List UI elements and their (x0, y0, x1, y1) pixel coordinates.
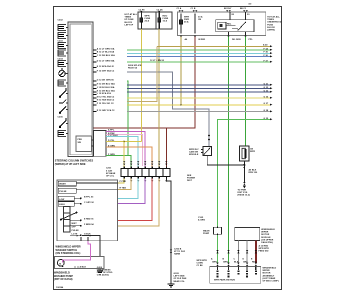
svg-text:(LEFT REAR: (LEFT REAR (263, 277, 276, 280)
svg-text:M 12 YEL 98A C2: M 12 YEL 98A C2 (97, 95, 115, 98)
svg-text:I/P HARNESS: I/P HARNESS (97, 268, 111, 271)
wire W-green down left side to module lower pin (97, 79, 131, 166)
bottom connector C1 pin triangles (216, 263, 257, 267)
svg-text:PULSE: PULSE (59, 191, 67, 193)
connector symbol on ground wire (170, 250, 172, 253)
svg-text:WPR: WPR (250, 151, 255, 153)
svg-text:A GRN: A GRN (198, 219, 205, 222)
wiper motor module box (235, 227, 260, 240)
svg-text:H 12 DK BLU 94A: H 12 DK BLU 94A (97, 82, 115, 85)
svg-text:WPR PARK SW RUN: WPR PARK SW RUN (214, 279, 235, 282)
fuse element E1 (180, 14, 190, 34)
svg-text:PULSE: PULSE (72, 230, 80, 232)
module inner link wires (92, 139, 94, 141)
wire: green relay 1 long vertical to bottom connector (228, 37, 230, 264)
strip pin connector marks below (123, 180, 167, 182)
svg-text:A9 BLK: A9 BLK (249, 168, 257, 171)
svg-text:PUMP: PUMP (203, 233, 210, 235)
svg-text:LOW: LOW (59, 199, 64, 201)
svg-text:J 12 DK BLU 95A: J 12 DK BLU 95A (97, 86, 115, 89)
wire W15 lt green from right label down to bottom connector (218, 118, 271, 263)
wire below pulse board with junction dots (243, 161, 245, 182)
switch bottom pins (80, 237, 82, 241)
svg-text:A BLK: A BLK (80, 266, 87, 269)
svg-text:PRK: PRK (78, 139, 83, 141)
wire B5 red strip pin5 to switch (82, 179, 152, 221)
svg-text:G 35: G 35 (264, 96, 269, 98)
svg-text:N 12 TAN 99A C2: N 12 TAN 99A C2 (97, 99, 115, 102)
wire M4 cyan to strip pin3 (106, 135, 138, 166)
svg-text:MIST: MIST (72, 223, 78, 225)
svg-text:C204: C204 (58, 57, 64, 60)
relay R2 (wiper control) box with diagonal (189, 147, 211, 157)
switch S1 box (57, 180, 118, 241)
ground G2 label (174, 273, 187, 283)
svg-text:(WIPER) AT I/P LEFT SIDE: (WIPER) AT I/P LEFT SIDE (55, 163, 86, 166)
svg-text:OFF: OFF (72, 227, 77, 229)
svg-text:B 12 LT BLU 93A: B 12 LT BLU 93A (97, 51, 115, 54)
svg-text:LEFT I/P: LEFT I/P (125, 24, 134, 26)
svg-text:P PNK: P PNK (120, 181, 127, 183)
text right of underhood box (267, 16, 282, 32)
svg-text:G 31: G 31 (264, 83, 269, 85)
wire end arrows at right edge (270, 45, 272, 120)
strip pin connector marks above (123, 161, 167, 165)
module right-edge pin stubs (93, 50, 96, 112)
fuse F1 box (138, 12, 156, 29)
wire gray2 below wiper module (246, 241, 248, 263)
stubs from left column to module (65, 28, 68, 134)
fuse F2 box (156, 12, 172, 29)
svg-text:RFB 150: RFB 150 (249, 172, 258, 174)
svg-text:FEED 592: FEED 592 (259, 251, 270, 253)
svg-text:G 33: G 33 (264, 90, 269, 92)
ground G200 label (97, 267, 113, 277)
wire B4 violet strip pin4 to switch (82, 179, 145, 204)
connector marks on top of underhood box (179, 10, 248, 12)
svg-text:GRN: GRN (223, 261, 228, 263)
fuse F2 connector label (157, 10, 164, 13)
module inner box B (76, 136, 92, 152)
svg-text:6 CAV: 6 CAV (106, 169, 113, 172)
wire B7 black strip pin7 to ground vertical (166, 179, 171, 284)
svg-text:F 12 GRY 96A C2: F 12 GRY 96A C2 (97, 69, 115, 72)
motor brush elements inside lower box (218, 267, 256, 271)
small pin labels above bottom connector (211, 258, 257, 264)
switch wire labels (84, 181, 127, 235)
connector triangles below underhood box (180, 36, 247, 38)
off page label (238, 190, 251, 197)
svg-text:HOT AT ALL: HOT AT ALL (125, 13, 138, 16)
wire W2 cyan (97, 51, 270, 54)
connector triangles on chain (243, 182, 245, 185)
wire W14 gray (97, 109, 270, 112)
off page arrow (243, 186, 246, 189)
node: fuse block header text (125, 13, 138, 26)
connector label (174, 249, 185, 256)
svg-text:M: M (59, 263, 61, 265)
svg-text:D 12 LT GRN 95A: D 12 LT GRN 95A (97, 59, 115, 62)
svg-text:B RED: B RED (199, 39, 206, 41)
border frame (54, 6, 282, 289)
svg-text:ASSEMBLY: ASSEMBLY (263, 274, 275, 277)
washer pump box (55, 257, 105, 269)
svg-text:G 32: G 32 (264, 87, 269, 89)
svg-text:PPL: PPL (249, 39, 254, 41)
left column connector C201 (58, 20, 67, 137)
svg-text:GRN: GRN (212, 261, 217, 263)
svg-text:L 12 NCA 97A: L 12 NCA 97A (97, 92, 112, 95)
svg-text:25 A: 25 A (145, 20, 150, 23)
wire gray1 below wiper module (237, 241, 239, 263)
svg-text:(PAGE 10-2): (PAGE 10-2) (238, 194, 251, 197)
svg-text:HOT AT ALL: HOT AT ALL (267, 16, 280, 19)
wire M2 magenta to strip pin4 (106, 129, 145, 167)
wiper motor assembly lower box (210, 267, 261, 284)
label right of lower box (263, 268, 279, 283)
module U1 inner border (70, 24, 91, 155)
svg-text:REL: REL (227, 24, 232, 26)
switch wafer column (64, 207, 71, 233)
switch contact box 4 (58, 202, 81, 207)
svg-text:WASH: WASH (203, 230, 210, 233)
wire: dark red from fuse E2 down then left to module (93, 37, 195, 129)
svg-text:G 38: G 38 (264, 110, 269, 112)
wire W11 pale yellow (97, 95, 270, 98)
svg-text:C1 A: C1 A (177, 7, 182, 10)
wire: dark red branch down to strip pin7 (165, 128, 167, 168)
strip connector C2 label (106, 168, 116, 178)
svg-text:K 12 DK BLU 96A: K 12 DK BLU 96A (97, 89, 115, 92)
wire W3 blue (97, 54, 270, 57)
switch mode text (72, 223, 80, 236)
svg-text:C202: C202 (58, 20, 64, 22)
row label only (no wire) (97, 92, 112, 95)
svg-text:HIGH: HIGH (59, 204, 65, 206)
svg-text:G 37: G 37 (264, 103, 269, 105)
wire W12 tan turns up to tan top row (97, 47, 157, 102)
svg-text:DK GRN: DK GRN (232, 39, 241, 41)
svg-text:C205: C205 (58, 117, 64, 119)
svg-text:HARN: HARN (174, 253, 181, 256)
wire W1 lt green (97, 47, 270, 50)
fuse F1 connector label (139, 10, 146, 13)
switch contact box 3 (58, 196, 81, 201)
svg-text:A 40: A 40 (263, 44, 268, 47)
magenta wire from switch pin J to washer pump (63, 241, 91, 263)
washer pump bold label (54, 272, 73, 282)
svg-text:(FRT OF DASH): (FRT OF DASH) (54, 278, 73, 281)
svg-text:R 12 GRY 97A C2: R 12 GRY 97A C2 (97, 109, 115, 112)
svg-text:NEAR COL: NEAR COL (174, 280, 186, 283)
svg-text:C 12 DK BLU 92A: C 12 DK BLU 92A (97, 54, 115, 57)
washer hose connector on green W15 (203, 227, 222, 236)
svg-text:OF FLR PAN: OF FLR PAN (174, 277, 187, 280)
wire W9 dk blue (97, 89, 270, 92)
svg-text:PACK 94: PACK 94 (128, 67, 138, 70)
svg-text:MODULE: MODULE (189, 154, 199, 156)
wire W13 yellow with junction to olive vertical (97, 103, 270, 106)
svg-text:WASH: WASH (59, 183, 66, 186)
svg-text:G 12 DK GRN 95: G 12 DK GRN 95 (97, 79, 115, 81)
wire: tan top row to right edge (157, 46, 270, 48)
wire W5 label only (97, 65, 142, 70)
fuse element E2 (194, 14, 203, 34)
svg-text:CB: CB (198, 19, 202, 21)
svg-text:DASH PNL): DASH PNL) (261, 241, 273, 244)
wire dark red thick below wiper module (255, 241, 257, 263)
wire W7 dk blue (97, 82, 270, 85)
left label of bottom connector (197, 260, 208, 267)
svg-text:E 12 NCA 594 J2: E 12 NCA 594 J2 (97, 65, 115, 68)
strip connector row of cells (121, 169, 170, 177)
svg-text:10 A: 10 A (163, 20, 168, 23)
svg-text:B PPL 93: B PPL 93 (84, 197, 94, 199)
underhood fuse block box (178, 12, 266, 36)
svg-text:F BRN 94: F BRN 94 (84, 223, 94, 226)
dark red wire label (259, 245, 270, 253)
strip pin stubs (124, 166, 166, 178)
wire from relay R2 bottom to pulse board chain (207, 156, 245, 166)
wire: yellow from fuse F1 down to yellow row (140, 29, 142, 142)
wire B3 cyan strip pin3 to switch (82, 179, 138, 199)
wire W4 lt green (97, 59, 270, 62)
switch lever (60, 212, 77, 221)
wire: green relay 2 vertical to pulse board (245, 37, 247, 147)
svg-text:C1 B6: C1 B6 (197, 265, 204, 267)
wiper relay box (216, 12, 254, 36)
switch bold label below (56, 246, 82, 256)
svg-text:C1 B: C1 B (191, 8, 196, 10)
svg-text:E RED 91: E RED 91 (84, 219, 94, 221)
wire B2 tan strip pin2 to switch (117, 179, 131, 190)
switch internal pin links (70, 220, 81, 235)
wire: olive vertical from fuse E1 (180, 37, 182, 105)
svg-text:(ON STEERING COL): (ON STEERING COL) (56, 252, 81, 255)
washer pump pins (62, 261, 79, 267)
wire M3 pink short (106, 133, 142, 166)
svg-text:OF ENG COMP): OF ENG COMP) (263, 281, 279, 283)
module U1 (left column module) outer box (68, 22, 93, 157)
wire W6 gray to relay R2 (97, 69, 210, 146)
floating note text (187, 175, 196, 182)
svg-text:AT BASE: AT BASE (106, 172, 116, 175)
washer pump motor circle (57, 259, 64, 266)
svg-text:SW: SW (78, 142, 81, 144)
svg-text:A 12 LT GRN 91A: A 12 LT GRN 91A (97, 47, 115, 50)
svg-text:25 A: 25 A (184, 21, 189, 24)
svg-text:COL (G200): COL (G200) (97, 275, 109, 277)
wire M5 yellow row joining fuse F1 vertical, to strip pin1 (106, 140, 141, 167)
svg-text:B2 RLY: B2 RLY (224, 8, 232, 10)
switch black wire to ground G200 (82, 235, 100, 271)
ground G200 symbol (97, 271, 103, 274)
wire M6 orange to strip pin5 (106, 145, 152, 166)
svg-text:P 12 YEL 591 C2: P 12 YEL 591 C2 (97, 103, 115, 105)
wire B6 tan strip pin6 to switch (82, 179, 159, 226)
switch contact box 2 (58, 188, 117, 193)
wire W8 dk blue (97, 86, 270, 89)
module inner box A (94, 131, 107, 157)
svg-text:30 A: 30 A (198, 16, 203, 19)
wiper motor module label (261, 229, 275, 244)
svg-text:A 12 RED: A 12 RED (259, 245, 269, 248)
svg-text:(UHFB): (UHFB) (267, 30, 275, 32)
ground G2 symbol (168, 284, 175, 287)
svg-text:CAM SW: CAM SW (189, 151, 198, 154)
wire B1 yellow strip pin1 to switch (117, 179, 124, 183)
svg-text:OF COL: OF COL (106, 176, 115, 178)
pulse board component C3 (240, 146, 256, 161)
inline connector symbols on bottom verticals (216, 250, 257, 253)
svg-text:F GRN: F GRN (108, 154, 115, 156)
svg-text:DIST: DIST (187, 180, 193, 182)
wire: tan from fuse F2 down to strip pin6, branch right at y46.5 (158, 29, 160, 168)
svg-text:C GRY 92: C GRY 92 (84, 202, 95, 204)
svg-text:R TAN: R TAN (120, 187, 127, 190)
svg-text:B8 C1: B8 C1 (240, 8, 247, 10)
switch contact box 1 (58, 181, 117, 186)
svg-text:102264: 102264 (56, 286, 64, 289)
